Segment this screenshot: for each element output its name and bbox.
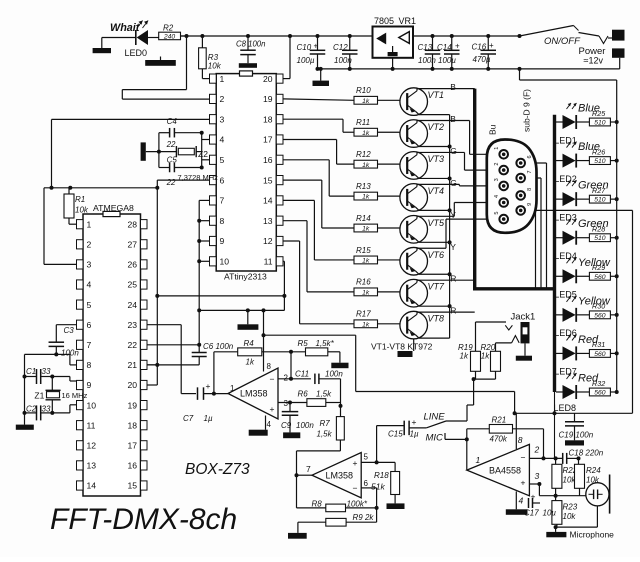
- svg-text:Red: Red: [578, 372, 599, 384]
- svg-text:BA4558: BA4558: [489, 466, 521, 476]
- svg-text:R4: R4: [244, 339, 255, 348]
- svg-text:C4: C4: [167, 117, 178, 126]
- svg-text:2: 2: [534, 445, 540, 455]
- svg-text:VT2: VT2: [428, 122, 445, 132]
- svg-text:4: 4: [519, 496, 524, 506]
- svg-text:470k: 470k: [490, 435, 508, 444]
- svg-text:18: 18: [127, 420, 137, 430]
- svg-text:1,5k*: 1,5k*: [316, 339, 335, 348]
- svg-text:27: 27: [127, 240, 137, 250]
- svg-text:15: 15: [127, 481, 137, 491]
- svg-text:21: 21: [127, 360, 137, 370]
- svg-text:5: 5: [87, 300, 92, 310]
- svg-text:C2: C2: [26, 405, 37, 414]
- svg-text:LED3: LED3: [554, 212, 577, 222]
- svg-text:5: 5: [220, 155, 225, 165]
- svg-text:14: 14: [87, 481, 97, 491]
- svg-text:26: 26: [127, 260, 137, 270]
- svg-text:Jack1: Jack1: [511, 312, 536, 323]
- svg-text:1,5k: 1,5k: [317, 430, 333, 439]
- svg-text:6: 6: [220, 175, 225, 185]
- svg-text:ON/OFF: ON/OFF: [544, 36, 581, 47]
- svg-text:C19 100n: C19 100n: [559, 431, 594, 440]
- svg-text:LINE: LINE: [424, 412, 446, 423]
- svg-text:R16: R16: [356, 278, 371, 287]
- svg-text:7805: 7805: [374, 16, 394, 26]
- svg-text:22: 22: [166, 140, 176, 149]
- svg-text:25: 25: [127, 280, 137, 290]
- svg-text:16: 16: [263, 155, 273, 165]
- svg-text:4: 4: [267, 420, 272, 429]
- svg-text:3: 3: [284, 399, 289, 408]
- svg-text:VT3: VT3: [428, 154, 445, 164]
- svg-text:12: 12: [87, 441, 97, 451]
- svg-text:10: 10: [87, 400, 97, 410]
- svg-text:R6: R6: [298, 390, 309, 399]
- svg-text:1k: 1k: [246, 358, 255, 367]
- svg-text:+: +: [455, 42, 460, 51]
- svg-text:R10: R10: [356, 86, 371, 95]
- svg-text:Red: Red: [578, 334, 599, 346]
- svg-text:560: 560: [594, 351, 606, 358]
- svg-text:6: 6: [527, 155, 533, 158]
- svg-text:LED2: LED2: [554, 174, 577, 184]
- svg-text:19: 19: [127, 400, 137, 410]
- svg-text:VT1-VT8 KT972: VT1-VT8 KT972: [371, 342, 433, 352]
- svg-text:1k: 1k: [362, 98, 370, 105]
- svg-text:1µ: 1µ: [204, 414, 213, 423]
- svg-text:R21: R21: [492, 416, 507, 425]
- svg-text:1k: 1k: [481, 352, 490, 361]
- svg-text:Z2: Z2: [198, 149, 208, 159]
- svg-text:1: 1: [220, 74, 225, 84]
- svg-text:LED1: LED1: [554, 135, 577, 145]
- svg-text:3: 3: [87, 260, 92, 270]
- svg-text:C7: C7: [183, 414, 194, 423]
- svg-text:22: 22: [166, 178, 176, 187]
- svg-text:3: 3: [220, 114, 225, 124]
- svg-text:1,5k: 1,5k: [316, 390, 332, 399]
- svg-text:LED4: LED4: [554, 251, 577, 261]
- svg-text:1k: 1k: [362, 130, 370, 137]
- svg-text:C9: C9: [281, 421, 292, 430]
- svg-text:240: 240: [163, 33, 176, 40]
- svg-text:8: 8: [220, 216, 225, 226]
- svg-text:510: 510: [594, 158, 606, 165]
- svg-text:560: 560: [594, 274, 606, 281]
- svg-text:1: 1: [87, 219, 92, 229]
- svg-text:10k: 10k: [75, 206, 89, 215]
- svg-text:R15: R15: [356, 246, 371, 255]
- svg-text:10: 10: [220, 257, 230, 267]
- svg-text:17: 17: [127, 441, 137, 451]
- svg-text:+: +: [489, 41, 494, 50]
- svg-text:16: 16: [127, 461, 137, 471]
- svg-text:100n: 100n: [418, 56, 436, 65]
- svg-text:1: 1: [476, 455, 481, 465]
- svg-text:20: 20: [263, 74, 273, 84]
- svg-text:1k: 1k: [362, 194, 370, 201]
- svg-text:R18: R18: [374, 471, 389, 480]
- svg-text:10k: 10k: [563, 512, 577, 521]
- svg-text:ATtiny2313: ATtiny2313: [224, 272, 267, 282]
- svg-text:1k: 1k: [362, 226, 370, 233]
- svg-text:C11: C11: [295, 370, 309, 379]
- svg-text:510: 510: [594, 120, 606, 127]
- svg-text:3: 3: [494, 178, 500, 181]
- svg-text:7: 7: [87, 340, 92, 350]
- svg-text:6: 6: [87, 320, 92, 330]
- svg-text:8: 8: [87, 360, 92, 370]
- svg-text:LED5: LED5: [554, 290, 577, 300]
- svg-text:9: 9: [87, 380, 92, 390]
- svg-text:LED8: LED8: [554, 403, 577, 413]
- svg-text:LED7: LED7: [554, 367, 577, 377]
- svg-text:13: 13: [263, 216, 273, 226]
- svg-text:G: G: [450, 178, 457, 188]
- svg-text:9: 9: [220, 236, 225, 246]
- svg-text:Y: Y: [450, 210, 456, 220]
- svg-text:+: +: [521, 478, 526, 488]
- svg-text:8: 8: [518, 435, 523, 445]
- svg-text:7: 7: [527, 170, 533, 173]
- svg-text:14: 14: [263, 196, 273, 206]
- svg-text:13: 13: [87, 461, 97, 471]
- svg-text:100µ: 100µ: [438, 56, 456, 65]
- svg-text:C10: C10: [297, 43, 312, 52]
- svg-text:BOX-Z73: BOX-Z73: [185, 461, 250, 478]
- svg-text:C14: C14: [437, 43, 452, 52]
- svg-text:2: 2: [494, 163, 500, 166]
- svg-text:2: 2: [220, 94, 225, 104]
- svg-text:560: 560: [594, 389, 606, 396]
- svg-text:6: 6: [364, 479, 369, 488]
- svg-text:R: R: [450, 306, 456, 316]
- svg-text:16 MHz: 16 MHz: [62, 391, 88, 400]
- svg-text:470µ: 470µ: [473, 55, 491, 64]
- svg-text:C17: C17: [524, 509, 539, 518]
- svg-text:28: 28: [127, 219, 137, 229]
- svg-text:Bu: Bu: [488, 124, 498, 135]
- svg-text:R17: R17: [356, 310, 371, 319]
- svg-text:7: 7: [220, 196, 225, 206]
- svg-text:R1: R1: [75, 195, 85, 204]
- svg-text:Green: Green: [578, 218, 609, 230]
- svg-text:G: G: [450, 146, 457, 156]
- svg-text:560: 560: [594, 312, 606, 319]
- svg-text:510: 510: [594, 235, 606, 242]
- svg-text:MIC: MIC: [426, 433, 444, 444]
- svg-text:C1: C1: [26, 367, 36, 376]
- svg-text:C18 220n: C18 220n: [569, 449, 604, 458]
- svg-text:4: 4: [494, 195, 500, 198]
- svg-text:+: +: [270, 404, 275, 414]
- svg-text:C3: C3: [64, 326, 75, 335]
- svg-text:3: 3: [535, 471, 540, 481]
- svg-text:R5: R5: [298, 339, 309, 348]
- svg-text:23: 23: [127, 320, 137, 330]
- svg-text:VT6: VT6: [428, 250, 445, 260]
- svg-text:Y: Y: [450, 242, 456, 252]
- svg-text:R8: R8: [312, 500, 323, 509]
- svg-text:7: 7: [306, 464, 311, 474]
- svg-text:Yellow: Yellow: [578, 295, 611, 307]
- svg-text:5: 5: [494, 212, 500, 215]
- svg-text:B: B: [450, 82, 456, 92]
- svg-text:C16: C16: [472, 43, 487, 52]
- svg-text:VR1: VR1: [399, 16, 417, 26]
- svg-text:C12: C12: [333, 43, 348, 52]
- svg-text:19: 19: [263, 94, 273, 104]
- svg-text:R7: R7: [320, 419, 331, 428]
- svg-text:2: 2: [284, 374, 289, 383]
- svg-text:1k: 1k: [362, 321, 370, 328]
- svg-text:1: 1: [494, 147, 500, 150]
- svg-text:1k: 1k: [362, 258, 370, 265]
- svg-text:11: 11: [87, 420, 96, 430]
- svg-text:510: 510: [594, 197, 606, 204]
- svg-text:7,3728 MHz: 7,3728 MHz: [178, 173, 219, 182]
- svg-text:100k*: 100k*: [347, 500, 368, 509]
- svg-text:LM358: LM358: [240, 389, 268, 399]
- svg-text:9: 9: [527, 203, 533, 206]
- svg-text:C13: C13: [418, 43, 433, 52]
- svg-text:Z1: Z1: [34, 390, 44, 400]
- svg-text:VT7: VT7: [428, 282, 446, 292]
- svg-text:FFT-DMX-8ch: FFT-DMX-8ch: [50, 503, 237, 536]
- svg-text:LED6: LED6: [554, 328, 577, 338]
- svg-text:R: R: [450, 274, 456, 284]
- svg-text:−: −: [521, 453, 526, 463]
- svg-text:11: 11: [264, 257, 273, 267]
- svg-text:R23: R23: [563, 503, 578, 512]
- svg-text:−: −: [270, 374, 275, 384]
- svg-text:LM358: LM358: [326, 471, 354, 481]
- svg-text:8: 8: [267, 362, 272, 371]
- svg-text:1: 1: [230, 384, 235, 393]
- svg-text:1µ: 1µ: [410, 430, 419, 439]
- svg-text:4: 4: [87, 280, 92, 290]
- svg-text:Blue: Blue: [578, 103, 600, 115]
- svg-text:+: +: [412, 417, 417, 427]
- svg-text:1k: 1k: [362, 162, 370, 169]
- svg-text:C15: C15: [388, 430, 403, 439]
- svg-text:4: 4: [220, 135, 225, 145]
- svg-text:33: 33: [42, 405, 51, 414]
- svg-text:18: 18: [263, 114, 273, 124]
- svg-text:LED0: LED0: [125, 48, 148, 58]
- svg-text:15: 15: [263, 175, 273, 185]
- svg-text:2: 2: [87, 240, 92, 250]
- svg-text:C8 100n: C8 100n: [236, 39, 265, 48]
- svg-text:+: +: [206, 381, 211, 391]
- svg-text:R2: R2: [163, 24, 174, 33]
- svg-text:100n: 100n: [296, 421, 314, 430]
- svg-text:+: +: [353, 458, 358, 468]
- svg-text:VT8: VT8: [428, 314, 445, 324]
- svg-text:100n: 100n: [334, 56, 352, 65]
- svg-text:20: 20: [127, 380, 137, 390]
- svg-text:17: 17: [263, 135, 273, 145]
- svg-text:ATMEGA8: ATMEGA8: [93, 203, 134, 213]
- svg-text:R11: R11: [356, 118, 370, 127]
- svg-text:VT1: VT1: [428, 90, 445, 100]
- svg-text:B: B: [450, 114, 456, 124]
- svg-text:Microphone: Microphone: [570, 530, 615, 540]
- svg-text:1k: 1k: [362, 289, 370, 296]
- svg-text:8: 8: [527, 188, 533, 191]
- svg-text:VT5: VT5: [428, 218, 446, 228]
- svg-text:R24: R24: [586, 466, 601, 475]
- svg-text:R12: R12: [356, 150, 371, 159]
- svg-text:C6 100n: C6 100n: [203, 342, 234, 351]
- svg-text:R9 2k: R9 2k: [353, 513, 375, 522]
- svg-text:R14: R14: [356, 214, 371, 223]
- svg-text:+: +: [314, 42, 319, 51]
- svg-text:10µ: 10µ: [543, 509, 557, 518]
- svg-text:VT4: VT4: [428, 186, 445, 196]
- svg-text:≈12v: ≈12v: [584, 56, 604, 66]
- svg-text:22: 22: [127, 340, 137, 350]
- svg-text:Green: Green: [578, 180, 609, 192]
- svg-text:1k: 1k: [460, 352, 469, 361]
- svg-text:Yellow: Yellow: [578, 257, 611, 269]
- svg-text:33: 33: [42, 367, 51, 376]
- svg-text:10k: 10k: [208, 62, 222, 71]
- svg-text:100n: 100n: [325, 370, 343, 379]
- svg-text:24: 24: [127, 300, 137, 310]
- svg-text:sub-D 9 (F): sub-D 9 (F): [522, 89, 532, 132]
- svg-text:100µ: 100µ: [297, 56, 315, 65]
- svg-text:Blue: Blue: [578, 141, 600, 153]
- svg-text:12: 12: [263, 236, 273, 246]
- svg-text:−: −: [353, 483, 358, 493]
- svg-text:5: 5: [364, 453, 369, 462]
- svg-text:51k: 51k: [371, 482, 385, 492]
- svg-text:R13: R13: [356, 182, 371, 191]
